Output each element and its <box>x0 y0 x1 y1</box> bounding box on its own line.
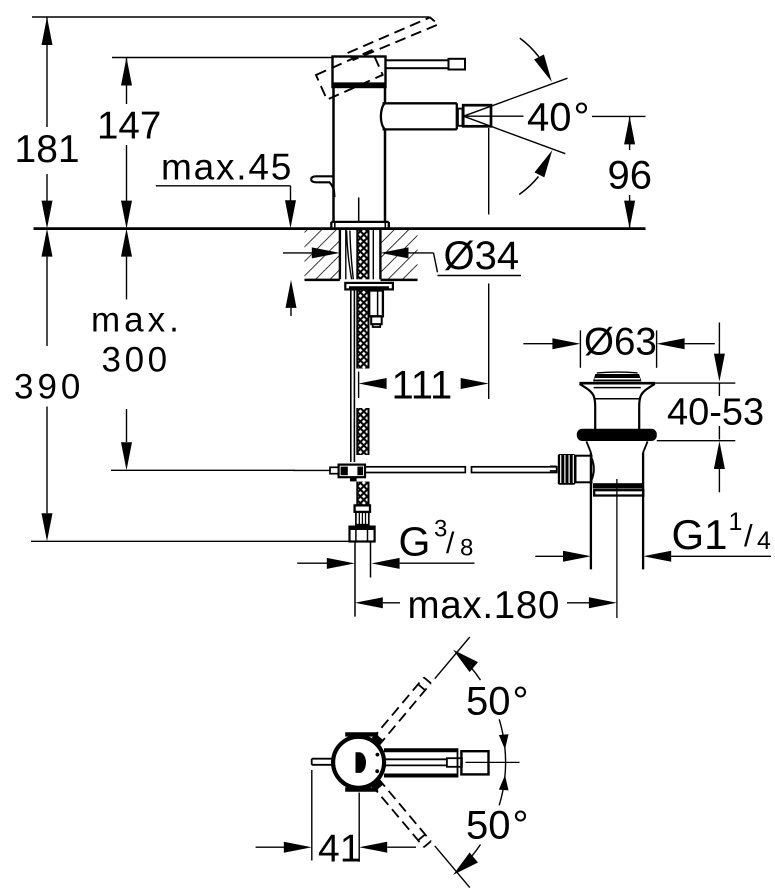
dimension 181 <box>15 17 80 229</box>
dimension G 3/8 arrows <box>297 558 474 569</box>
top view dashed lever -50deg <box>371 779 470 888</box>
faucet body column <box>334 87 386 222</box>
svg-text:max.: max. <box>91 301 183 340</box>
horizontal pop-up rod left stub <box>293 467 339 473</box>
50 degree arc lower <box>453 775 528 875</box>
braided hose segment A <box>357 290 368 369</box>
dimension 41 <box>256 770 416 871</box>
dimension 111 <box>359 364 489 408</box>
top view lever (horizontal) <box>384 748 520 777</box>
svg-text:181: 181 <box>15 128 80 171</box>
waste valve plug cap <box>593 372 641 381</box>
mounting locknut flange below deck <box>345 283 393 290</box>
svg-text:1: 1 <box>729 508 743 536</box>
aerator <box>463 105 491 126</box>
deck bottom line <box>305 279 418 282</box>
drain pull hook on body <box>311 176 334 197</box>
dimension 40-53 <box>646 323 764 493</box>
spout <box>381 103 457 129</box>
40 degree spray line upper <box>464 78 568 116</box>
svg-text:300: 300 <box>102 341 171 380</box>
horizontal pop-up rod (to waste valve) <box>365 467 557 473</box>
braided hose in shank <box>357 230 368 279</box>
svg-text:40°: 40° <box>527 96 590 140</box>
50 degree arc upper <box>453 650 528 778</box>
countertop deck top line <box>34 227 646 230</box>
svg-text:/: / <box>446 527 455 560</box>
waste valve seal flange (black) <box>577 429 657 441</box>
deck hole walls <box>340 230 381 279</box>
deck hatching left <box>305 230 340 279</box>
svg-text:390: 390 <box>14 368 84 407</box>
lever handle (horizontal) <box>386 59 466 70</box>
aerator connector <box>458 109 463 126</box>
faucet body cartridge (front view) <box>333 57 386 88</box>
svg-text:G: G <box>399 518 431 564</box>
top view mounting flats <box>345 734 378 789</box>
dimension G1 1/4 arrows <box>535 551 771 562</box>
mounting stud assembly <box>369 291 383 328</box>
svg-text:G1: G1 <box>672 511 728 558</box>
svg-text:Ø34: Ø34 <box>444 234 520 278</box>
tube below nut / faucet centre extension <box>355 542 371 617</box>
svg-text:max.45: max.45 <box>161 147 293 188</box>
40 degree spray line lower <box>464 116 566 154</box>
40 degree arc lower <box>519 177 538 195</box>
pop-up rod inside body <box>358 198 360 222</box>
base flange <box>331 222 389 228</box>
label G1 1/4 <box>672 508 772 558</box>
hose crimp ring <box>355 505 370 512</box>
dimension diameter 63 <box>523 320 714 368</box>
waste valve funnel <box>579 383 655 429</box>
waste valve body shoulder <box>586 441 647 452</box>
dimension diameter 34 leader <box>283 234 521 278</box>
knurled adjusting knob <box>550 454 576 485</box>
40 degree arc upper <box>520 38 539 57</box>
waste centre line <box>616 479 618 618</box>
dashed lever (raised position) <box>348 17 439 60</box>
G 3/8 hose nut <box>350 527 375 542</box>
svg-text:8: 8 <box>460 534 473 561</box>
label G 3/8 <box>399 515 474 564</box>
spout tip extension line <box>488 128 490 399</box>
braided hose segment C <box>357 482 368 506</box>
svg-text:147: 147 <box>97 105 161 148</box>
reference line 147 <box>112 57 333 59</box>
svg-text:41: 41 <box>318 828 361 871</box>
hose ribbed section <box>356 512 369 525</box>
top view screw dots <box>376 753 380 757</box>
dimension max.300 <box>91 229 183 471</box>
dimension 96 <box>608 116 653 228</box>
waste body grooves (dark bands) <box>593 483 644 495</box>
svg-text:111: 111 <box>392 364 453 408</box>
braided hose segment B <box>357 408 368 455</box>
dimension 147 <box>97 58 161 229</box>
svg-text:4: 4 <box>757 527 771 555</box>
pop-up rod vertical <box>351 290 355 462</box>
hoses curving inside shank <box>347 231 354 280</box>
svg-text:max.180: max.180 <box>408 584 561 627</box>
svg-text:50°: 50° <box>466 803 529 847</box>
label max.45 with leader <box>156 147 297 317</box>
dimension max.300 reference line <box>111 469 295 471</box>
top view dashed lever +50deg <box>371 637 470 746</box>
top view cartridge hub (D shape) <box>356 752 367 773</box>
svg-text:96: 96 <box>608 154 653 198</box>
deck hatching right <box>381 230 418 279</box>
top view body circle <box>333 737 384 788</box>
svg-text:40-53: 40-53 <box>667 392 764 434</box>
svg-text:/: / <box>744 518 753 553</box>
dimension max.180 <box>355 584 617 627</box>
pop-up rod connector block <box>339 465 365 482</box>
dimension 390 <box>14 229 350 542</box>
dashed cartridge (tilted position) <box>316 50 383 99</box>
lever position marks on ring <box>374 737 380 744</box>
top view spout stub (left) <box>312 759 333 765</box>
svg-text:Ø63: Ø63 <box>584 320 657 363</box>
waste valve body <box>591 453 643 570</box>
actuator boss <box>576 456 595 483</box>
top reference line (181) <box>32 16 429 18</box>
leader line 40deg <box>466 115 524 117</box>
svg-text:50°: 50° <box>466 680 529 724</box>
